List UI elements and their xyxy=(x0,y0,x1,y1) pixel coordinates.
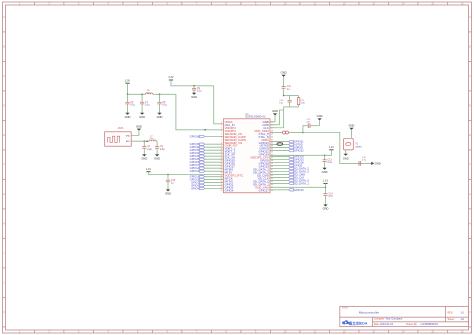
svg-text:嘉立创EDA: 嘉立创EDA xyxy=(348,321,368,326)
svg-text:1.0: 1.0 xyxy=(460,311,464,315)
svg-text:GPIO36: GPIO36 xyxy=(190,135,200,139)
svg-text:GPIO22: GPIO22 xyxy=(294,149,304,153)
svg-text:GND: GND xyxy=(323,207,329,211)
svg-text:J: J xyxy=(3,283,4,285)
svg-text:mini96982001: mini96982001 xyxy=(420,322,438,326)
svg-text:1/1: 1/1 xyxy=(460,317,464,321)
svg-text:1.1V: 1.1V xyxy=(329,146,334,149)
svg-text:34: 34 xyxy=(271,148,273,150)
svg-text:GND: GND xyxy=(281,71,287,75)
svg-text:42: 42 xyxy=(271,172,273,174)
svg-text:10K: 10K xyxy=(301,103,305,105)
svg-text:GPIO4: GPIO4 xyxy=(225,188,234,192)
svg-text:C11: C11 xyxy=(287,86,292,88)
svg-text:44: 44 xyxy=(271,178,273,180)
svg-text:REV:: REV: xyxy=(448,312,454,315)
svg-text:ESP32-D0WD-V3: ESP32-D0WD-V3 xyxy=(246,116,266,119)
svg-text:41: 41 xyxy=(271,169,273,171)
svg-text:45: 45 xyxy=(271,181,273,183)
svg-text:32: 32 xyxy=(271,142,273,144)
svg-text:GPIO12: GPIO12 xyxy=(190,169,200,173)
svg-text:GND: GND xyxy=(125,115,131,119)
svg-text:1.1V: 1.1V xyxy=(323,180,328,183)
svg-text:G: G xyxy=(3,194,5,196)
svg-text:0.1u: 0.1u xyxy=(145,105,150,107)
svg-text:GND: GND xyxy=(272,109,278,113)
svg-text:0.1u: 0.1u xyxy=(162,105,167,107)
svg-text:4: 4 xyxy=(221,130,222,132)
svg-text:18: 18 xyxy=(221,172,223,174)
svg-text:7: 7 xyxy=(221,139,222,141)
svg-text:43: 43 xyxy=(271,175,273,177)
svg-text:Microcontroller: Microcontroller xyxy=(359,310,379,314)
svg-text:2: 2 xyxy=(221,124,222,126)
svg-text:GPIO16: GPIO16 xyxy=(294,188,304,192)
svg-text:3.3V: 3.3V xyxy=(125,79,130,82)
svg-text:G: G xyxy=(469,194,471,196)
svg-text:Your Company: Your Company xyxy=(385,317,403,321)
svg-text:2.2p: 2.2p xyxy=(147,149,152,151)
svg-text:GND: GND xyxy=(136,124,142,128)
svg-text:30: 30 xyxy=(271,136,273,138)
svg-text:Drawn By:: Drawn By: xyxy=(406,323,417,326)
svg-text:2.2p: 2.2p xyxy=(160,149,165,151)
svg-text:GND: GND xyxy=(322,170,328,174)
svg-text:GND: GND xyxy=(139,115,145,119)
svg-text:5: 5 xyxy=(221,133,222,135)
svg-text:SD_DATA_1: SD_DATA_1 xyxy=(294,181,309,185)
svg-text:40MHz: 40MHz xyxy=(355,146,362,148)
svg-text:46: 46 xyxy=(271,184,273,186)
svg-text:40: 40 xyxy=(271,166,273,168)
svg-text:3.3V: 3.3V xyxy=(168,76,173,79)
svg-text:C15: C15 xyxy=(171,180,176,182)
svg-text:37: 37 xyxy=(271,157,273,159)
svg-text:24: 24 xyxy=(221,190,223,192)
svg-text:TITLE:: TITLE: xyxy=(342,308,349,310)
svg-text:GPIO4: GPIO4 xyxy=(191,187,200,191)
svg-text:Sheet:: Sheet: xyxy=(448,318,455,321)
svg-text:C13: C13 xyxy=(328,159,333,161)
svg-text:1: 1 xyxy=(221,122,222,124)
svg-text:0.1u: 0.1u xyxy=(328,162,333,164)
svg-text:GND: GND xyxy=(165,192,171,196)
svg-text:2.4n: 2.4n xyxy=(150,138,154,140)
svg-text:J: J xyxy=(469,283,470,285)
svg-text:31: 31 xyxy=(271,139,273,141)
svg-text:0.1u: 0.1u xyxy=(197,91,202,93)
svg-text:4.7u: 4.7u xyxy=(328,196,333,198)
svg-text:Date:: Date: xyxy=(374,323,380,326)
svg-text:39: 39 xyxy=(271,163,273,165)
svg-text:3: 3 xyxy=(221,127,222,129)
svg-text:GND: GND xyxy=(154,157,160,161)
svg-text:GND: GND xyxy=(375,161,381,165)
svg-text:29: 29 xyxy=(271,133,273,135)
svg-text:48: 48 xyxy=(271,190,273,192)
svg-text:GND: GND xyxy=(317,114,323,118)
svg-text:GPIO17: GPIO17 xyxy=(259,188,270,192)
svg-text:35: 35 xyxy=(271,151,273,153)
svg-text:38: 38 xyxy=(271,160,273,162)
svg-text:C14: C14 xyxy=(328,193,333,195)
svg-text:0.1u: 0.1u xyxy=(130,105,135,107)
svg-text:2023-01-01: 2023-01-01 xyxy=(380,322,394,326)
svg-text:GND: GND xyxy=(349,124,355,128)
svg-text:GND: GND xyxy=(343,156,349,160)
svg-text:GND: GND xyxy=(141,157,147,161)
svg-text:Company:: Company: xyxy=(374,318,385,321)
svg-text:33: 33 xyxy=(271,145,273,147)
svg-text:GND: GND xyxy=(191,95,197,99)
svg-text:GND: GND xyxy=(126,135,131,137)
svg-text:GND: GND xyxy=(157,115,163,119)
svg-text:1.1V: 1.1V xyxy=(146,168,151,171)
svg-text:ANT1: ANT1 xyxy=(118,127,125,130)
